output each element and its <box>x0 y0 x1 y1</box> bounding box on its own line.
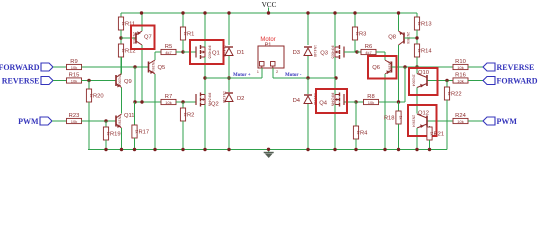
svg-text:2N3904: 2N3904 <box>412 115 416 127</box>
junction D4 at rail <box>306 148 309 151</box>
wire R1 down to gate node <box>182 40 184 52</box>
junction ground on rail <box>267 148 270 151</box>
wire Q5 collector up <box>154 52 156 60</box>
junction VCC on rail <box>267 11 270 14</box>
svg-text:IRF4905: IRF4905 <box>331 45 335 58</box>
wire node to Q7 base <box>121 37 136 39</box>
connector PWM output <box>483 117 517 126</box>
wire gate node to R6 <box>357 51 361 53</box>
resistor R13 <box>414 17 431 30</box>
transistor Q10 <box>412 70 429 88</box>
wire Q6 emitter to ground rail <box>384 74 386 150</box>
svg-text:2N3904: 2N3904 <box>118 115 122 127</box>
mosfet Q3 <box>320 45 344 59</box>
junction R2 at rail <box>181 148 184 151</box>
junction Q2 gate node <box>181 100 184 103</box>
svg-text:IRFZ44N: IRFZ44N <box>331 93 335 107</box>
svg-text:1k: 1k <box>430 132 434 136</box>
wire FWD node down to low gate line <box>134 67 136 102</box>
resistor R17 <box>132 125 149 138</box>
svg-text:1N4148: 1N4148 <box>222 45 226 57</box>
junction Q7 collector on gate line <box>140 100 143 103</box>
wire PWM tag to R23 <box>52 120 67 122</box>
junction Motor- at Q3-Q4 <box>334 76 337 79</box>
svg-text:10k: 10k <box>71 78 77 83</box>
wire gate line down to R18 <box>398 102 400 111</box>
diode D1 <box>222 45 244 57</box>
svg-text:4k7: 4k7 <box>165 50 172 55</box>
node Motor - <box>285 73 302 78</box>
junction Q4 gate node <box>354 100 357 103</box>
junction R4 at rail <box>354 148 357 151</box>
wire R21 to ground rail <box>429 140 431 150</box>
wire Q12 base to R24 <box>427 120 453 122</box>
wire REV node down to R20 <box>88 81 90 90</box>
svg-text:10k: 10k <box>165 100 171 105</box>
junction D1 at rail <box>227 11 230 14</box>
wire R22 to ground rail <box>446 100 448 150</box>
wire Q3 source to VCC rail <box>334 13 336 47</box>
connector PWM input <box>18 117 52 126</box>
svg-text:P1: P1 <box>265 43 272 49</box>
resistor R10 <box>453 59 468 70</box>
highlight box around Q4 <box>316 89 347 113</box>
junction Q7 emitter at rail <box>140 11 143 14</box>
svg-text:2N3904: 2N3904 <box>388 61 392 73</box>
wire gate node to Q1 gate <box>183 51 196 53</box>
wire Q7 collector down to gate line <box>141 45 143 102</box>
junction gate line at FWD drop <box>133 100 136 103</box>
resistor R20 <box>86 89 103 102</box>
connector REVERSE output <box>483 63 534 72</box>
junction node FWD <box>133 65 136 68</box>
wire PWM node down to R19 <box>105 121 107 127</box>
svg-text:1k: 1k <box>121 22 125 26</box>
wire rail down to D3 <box>307 13 309 45</box>
wire Q1 source to VCC rail <box>204 13 206 47</box>
svg-text:2N3904: 2N3904 <box>412 75 416 87</box>
transistor Q7 <box>132 31 152 45</box>
resistor R24 <box>453 113 468 124</box>
wire R18 to ground rail <box>398 124 400 150</box>
junction Q4 at rail <box>333 148 336 151</box>
diode D2 <box>222 91 244 103</box>
junction Q5 emitter at rail <box>153 148 156 151</box>
svg-text:1k: 1k <box>399 116 403 120</box>
wire low gate line to R7 <box>135 101 162 103</box>
wire R16 to FORWARD tag <box>468 80 483 82</box>
svg-text:FORWARD: FORWARD <box>497 77 538 86</box>
wire R20 to ground rail <box>88 102 90 150</box>
wire Q8 collector down to gate line <box>398 45 400 102</box>
svg-text:1N4148: 1N4148 <box>313 45 317 57</box>
junction D3 at rail <box>306 11 309 14</box>
connector P1 Motor <box>257 37 284 74</box>
wire Q2 source to ground rail <box>204 105 206 150</box>
svg-text:VCC: VCC <box>262 1 277 9</box>
wire Motor- node down to D4 <box>307 78 309 94</box>
svg-text:1k: 1k <box>356 131 360 135</box>
wire Q4 drain to Motor- node <box>334 78 336 95</box>
resistor R18 <box>384 111 403 124</box>
wire rail corner down to R13 <box>416 13 418 17</box>
svg-text:Q7: Q7 <box>144 35 152 41</box>
junction R19 at ground rail <box>104 148 107 151</box>
svg-text:10k: 10k <box>457 78 463 83</box>
svg-text:1k: 1k <box>121 49 125 53</box>
svg-text:2N3904: 2N3904 <box>118 75 122 87</box>
wire D1 to Motor+ node <box>228 56 230 78</box>
highlight box around Q7 <box>131 26 155 50</box>
resistor R9 <box>67 59 82 70</box>
wire R24 to PWM tag <box>468 120 483 122</box>
junction node REV-right <box>403 65 406 68</box>
wire Motor+ line <box>205 77 262 79</box>
wire R13 to R14 <box>416 30 418 44</box>
highlight box around Q10 <box>409 68 438 95</box>
resistor R22 <box>444 87 461 100</box>
wire R5 to Q1 gate node <box>176 51 183 53</box>
junction R13-R14 node <box>415 36 418 39</box>
svg-text:R13: R13 <box>421 22 432 28</box>
svg-text:R22: R22 <box>451 92 462 98</box>
wire Q3 gate to gate node <box>344 51 357 53</box>
svg-text:D3: D3 <box>293 50 300 56</box>
resistor R11 <box>118 17 135 30</box>
svg-text:REVERSE: REVERSE <box>2 77 40 86</box>
mosfet Q2 <box>196 93 219 108</box>
junction Motor- at D3-D4 <box>306 76 309 79</box>
svg-text:Motor +: Motor + <box>233 73 251 78</box>
svg-text:1k: 1k <box>135 130 139 134</box>
wire R3 down to gate node <box>354 40 356 52</box>
svg-text:2N3904: 2N3904 <box>151 61 155 73</box>
wire D2 to ground rail <box>228 102 230 150</box>
wire R12 down to Q9 collector <box>120 57 122 75</box>
wire FWD-right node down to R22 <box>446 81 448 88</box>
wire Q7 emitter to VCC rail <box>141 13 143 31</box>
wire motor pin 1 <box>261 68 263 78</box>
resistor R5 <box>161 44 176 55</box>
wire R11 to R12 <box>120 30 122 44</box>
resistor R4 <box>353 126 368 139</box>
svg-text:10k: 10k <box>71 65 77 70</box>
mosfet Q1 <box>196 45 220 59</box>
wire Q10 base to R16 <box>427 80 453 82</box>
svg-text:Q3: Q3 <box>320 51 328 57</box>
svg-text:Q6: Q6 <box>372 65 380 71</box>
wire R7 to Q2 gate <box>176 101 196 103</box>
svg-text:10k: 10k <box>368 100 374 105</box>
resistor R7 <box>161 94 176 105</box>
wire Q5 collector to R5 <box>155 51 161 53</box>
resistor R23 <box>67 113 82 124</box>
junction Motor+ at D1-D2 <box>227 76 230 79</box>
ground <box>264 150 274 159</box>
svg-text:1k: 1k <box>355 32 359 36</box>
wire motor pin 2 <box>272 68 274 78</box>
wire top VCC rail <box>121 12 417 14</box>
svg-text:FORWARD: FORWARD <box>0 63 40 72</box>
svg-text:10k: 10k <box>457 119 463 124</box>
svg-text:1k: 1k <box>447 92 451 96</box>
junction R11-R12 node <box>119 36 122 39</box>
svg-text:REVERSE: REVERSE <box>497 63 535 72</box>
resistor R6 <box>361 44 376 55</box>
svg-text:R19: R19 <box>110 132 121 138</box>
highlight box around Q1 <box>190 40 224 64</box>
svg-text:1k: 1k <box>417 49 421 53</box>
svg-text:IRFZ44N: IRFZ44N <box>208 93 212 107</box>
svg-text:D2: D2 <box>237 96 244 102</box>
wire REVERSE tag to R15 <box>53 80 67 82</box>
junction R18 at rail <box>397 148 400 151</box>
junction R14 line at REV row <box>415 65 418 68</box>
transistor Q9 <box>116 74 132 88</box>
wire gate node down to R4 <box>355 102 357 126</box>
wire Q9 collector up to R12 <box>121 57 123 74</box>
wire rail to R1 <box>182 13 184 27</box>
wire R10 to REVERSE tag <box>468 66 483 68</box>
wire Q5 emitter to ground rail <box>154 74 156 150</box>
junction Q11 emitter at rail <box>120 148 123 151</box>
wire REV row to R10 <box>405 66 453 68</box>
junction Q1 at rail <box>203 11 206 14</box>
junction Q8 emitter at rail <box>397 11 400 14</box>
resistor R3 <box>352 27 366 40</box>
wire rail down to D1 <box>228 13 230 45</box>
svg-text:PWM: PWM <box>18 117 39 126</box>
svg-text:Q11: Q11 <box>124 113 135 119</box>
wire FORWARD tag to R9 <box>53 66 67 68</box>
diode D3 <box>293 45 317 57</box>
wire Q6 base from REV node <box>392 66 406 68</box>
wire FWD node to Q5 base <box>135 66 149 68</box>
svg-text:PWM: PWM <box>497 117 518 126</box>
transistor Q11 <box>116 113 135 128</box>
node Motor + <box>233 73 251 78</box>
svg-text:D1: D1 <box>237 50 244 56</box>
svg-text:2N3906: 2N3906 <box>132 32 136 44</box>
connector REVERSE input <box>2 77 53 86</box>
wire R23 to Q11 base <box>82 120 117 122</box>
wire R19 to ground rail <box>105 140 107 150</box>
wire R17 to ground rail <box>134 138 136 150</box>
wire down to Q6 collector <box>384 52 386 60</box>
svg-text:1k: 1k <box>183 32 187 36</box>
resistor R15 <box>67 72 82 83</box>
svg-text:Q9: Q9 <box>124 79 132 85</box>
wire gate line down to R17 <box>134 102 136 125</box>
junction R1 at rail <box>181 11 184 14</box>
resistor R19 <box>103 127 120 140</box>
wire D3 to Motor- node <box>307 56 309 78</box>
wire Q1 drain to Motor+ node <box>204 57 206 78</box>
svg-text:1k: 1k <box>106 132 110 136</box>
svg-text:Q4: Q4 <box>319 101 328 107</box>
svg-text:1k: 1k <box>183 113 187 117</box>
resistor R14 <box>414 44 432 57</box>
svg-text:4k7: 4k7 <box>365 50 372 55</box>
wire D4 to ground rail <box>307 104 309 150</box>
wire rail to R3 <box>354 13 356 27</box>
wire REV-right node down to gate line <box>404 67 406 102</box>
transistor Q5 <box>149 60 166 74</box>
mosfet Q4 <box>319 93 344 107</box>
highlight box around Q6 <box>368 56 397 79</box>
diode D4 <box>293 93 317 105</box>
wire gate node to Q4 gate <box>344 101 356 103</box>
power VCC <box>262 1 277 13</box>
resistor R12 <box>118 44 135 57</box>
resistor R2 <box>180 108 194 121</box>
wire R2 to ground rail <box>182 121 184 150</box>
svg-text:R4: R4 <box>360 131 368 137</box>
wire Q9 emitter to Q11 collector <box>121 88 123 114</box>
wire Q10 emitter to Q12 collector <box>416 88 418 114</box>
wire gate node down to R2 <box>182 102 184 108</box>
transistor Q12 <box>412 111 429 129</box>
svg-text:Q12: Q12 <box>418 111 429 117</box>
junction node PWM / R19 <box>104 119 107 122</box>
junction R3 at rail <box>353 11 356 14</box>
connector FORWARD input <box>0 63 53 72</box>
svg-text:Motor -: Motor - <box>285 73 302 78</box>
svg-text:1N4148: 1N4148 <box>222 91 226 103</box>
svg-text:R17: R17 <box>139 130 150 136</box>
junction Q12 emitter at rail <box>415 148 418 151</box>
junction Q3 at rail <box>333 11 336 14</box>
junction Q3 gate node <box>355 50 358 53</box>
wire R4 to ground rail <box>355 139 357 150</box>
svg-text:IRF4905: IRF4905 <box>208 45 212 58</box>
junction node REV / R20 <box>87 79 90 82</box>
svg-text:R21: R21 <box>434 132 445 138</box>
transistor Q6 <box>372 60 391 74</box>
svg-text:Q5: Q5 <box>158 65 166 71</box>
svg-text:1k: 1k <box>89 94 93 98</box>
junction Q1 gate node <box>181 50 184 53</box>
wire R6 to Q6 collector <box>376 51 385 53</box>
wire low gate line right <box>356 101 405 103</box>
junction R21 at rail <box>428 148 431 151</box>
resistor R1 <box>180 27 194 40</box>
connector FORWARD output <box>483 77 538 86</box>
wire Q8 base from node <box>404 37 417 39</box>
svg-text:10k: 10k <box>71 119 77 124</box>
svg-text:R18: R18 <box>384 116 395 122</box>
wire R9 to node FWD <box>82 66 136 68</box>
wire Q4 source to ground rail <box>334 105 336 150</box>
resistor R21 <box>427 127 444 140</box>
junction Motor+ at Q1-Q2 <box>203 76 206 79</box>
svg-text:R20: R20 <box>93 94 104 100</box>
wire Q3 drain to Motor- node <box>334 57 336 78</box>
junction node FWD-right / R22 <box>445 79 448 82</box>
wire Q11 emitter to ground rail <box>121 128 123 150</box>
svg-text:Q8: Q8 <box>388 35 396 41</box>
wire R15 to Q9 base <box>82 80 117 82</box>
svg-text:1k: 1k <box>417 22 421 26</box>
svg-text:Q1: Q1 <box>212 51 220 57</box>
transistor Q8 <box>388 31 410 45</box>
wire Q12 emitter node to R21 <box>429 126 431 127</box>
wire Motor- line <box>273 77 336 79</box>
svg-text:D4: D4 <box>293 98 301 104</box>
junction Q8 collector on gate line <box>397 100 400 103</box>
svg-text:R14: R14 <box>421 49 432 55</box>
wire Q12 emitter to ground rail <box>416 128 418 150</box>
wire bottom ground rail <box>88 149 447 151</box>
junction Q2 at rail <box>203 148 206 151</box>
junction Q6 emitter at rail <box>383 148 386 151</box>
wire rail corner down to R11 <box>120 13 122 17</box>
wire Q2 drain to Motor+ node <box>204 78 206 95</box>
junction D2 at rail <box>227 148 230 151</box>
resistor R8 <box>364 94 379 105</box>
resistor R16 <box>453 72 468 83</box>
wire Q8 emitter to VCC rail <box>398 13 400 31</box>
junction R17 at rail <box>133 148 136 151</box>
svg-text:10k: 10k <box>457 65 463 70</box>
svg-text:Q10: Q10 <box>418 70 429 76</box>
highlight box around Q12 <box>408 105 437 136</box>
wire Motor+ node down to D2 <box>228 78 230 92</box>
wire R14 down to Q10 collector <box>416 57 418 74</box>
